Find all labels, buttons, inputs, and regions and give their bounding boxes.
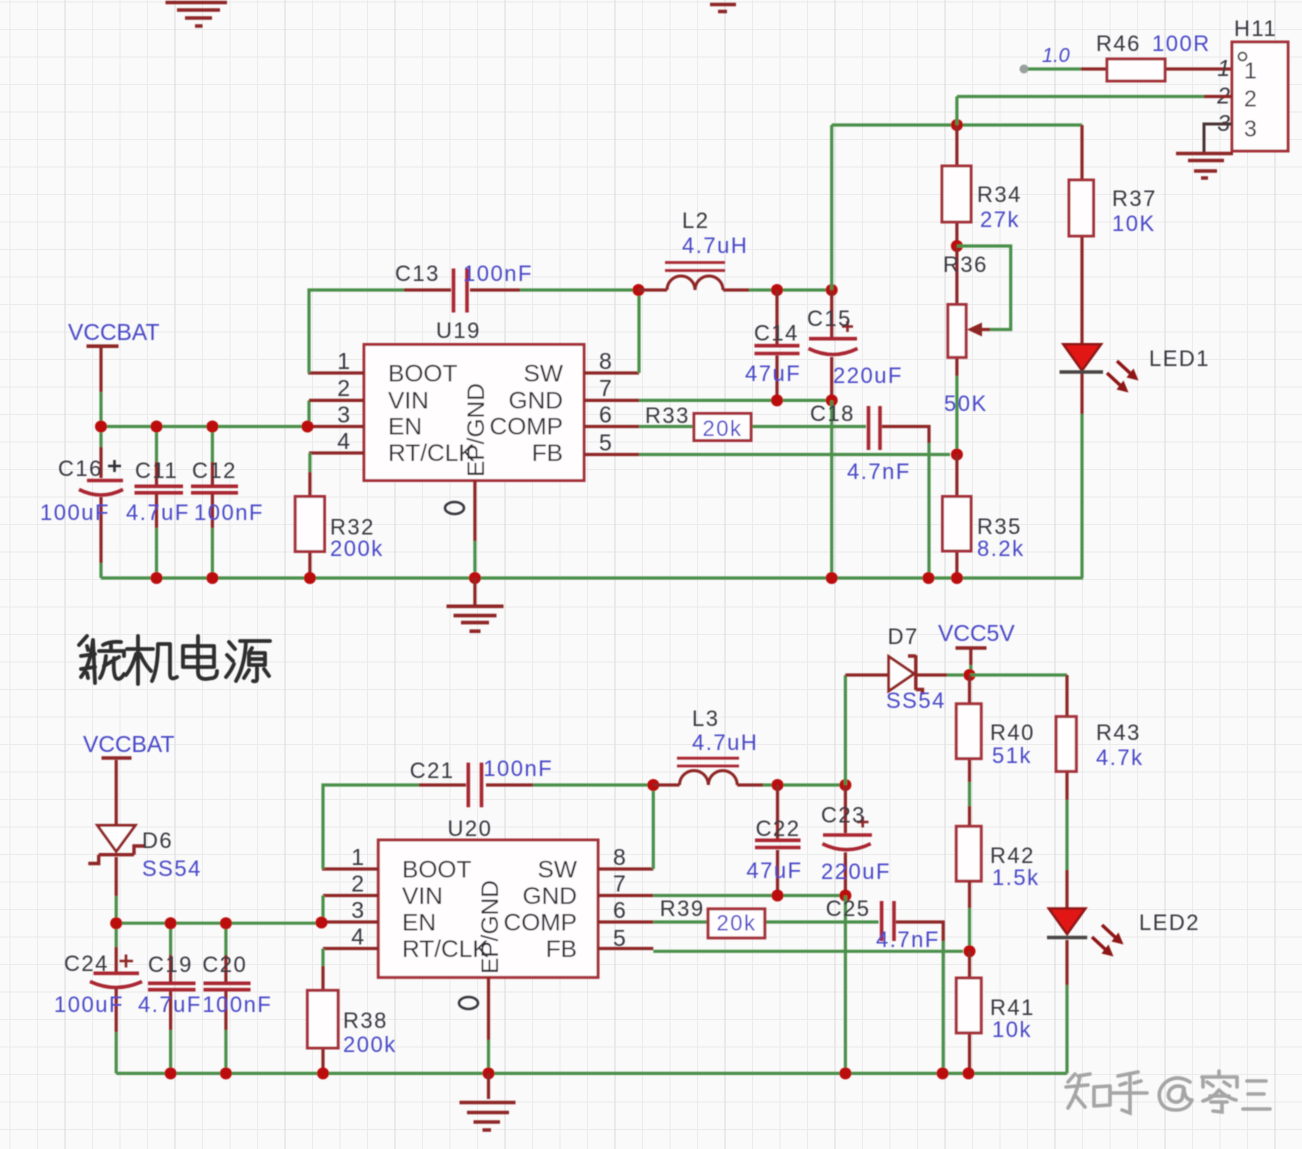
node C22 bottom junction — [772, 890, 784, 902]
resistor R41 — [956, 951, 1035, 1073]
svg-text:VIN: VIN — [402, 883, 443, 910]
pin 3 EN stub — [307, 425, 364, 428]
svg-text:7: 7 — [599, 375, 612, 401]
svg-text:GND: GND — [523, 883, 577, 910]
svg-text:4.7uF: 4.7uF — [126, 500, 190, 525]
node FB junction — [964, 945, 976, 957]
capacitor C23 polarized — [821, 785, 891, 896]
node rail junctions — [151, 572, 163, 584]
inductor L2 — [639, 208, 750, 290]
wire LED1 to ground rail — [1080, 414, 1083, 578]
wire L2 to output node — [749, 288, 832, 291]
svg-text:R34: R34 — [977, 182, 1022, 207]
U19 EP pin number 0 — [445, 502, 464, 514]
svg-text:C24: C24 — [64, 951, 109, 976]
svg-text:C22: C22 — [756, 816, 801, 841]
svg-text:C20: C20 — [202, 952, 247, 977]
svg-text:100R: 100R — [1152, 31, 1211, 56]
node EN rail junctions — [95, 421, 107, 433]
capacitor C14 — [745, 290, 801, 400]
svg-text:100nF: 100nF — [483, 756, 553, 781]
svg-text:47uF: 47uF — [745, 361, 801, 386]
pin 8 SW stub — [598, 867, 653, 870]
wire D7 to VCC5V node — [947, 673, 970, 676]
svg-text:C11: C11 — [135, 458, 178, 483]
svg-text:C13: C13 — [395, 261, 440, 286]
svg-text:5: 5 — [613, 925, 626, 951]
svg-text:10K: 10K — [1112, 211, 1156, 236]
svg-text:C19: C19 — [148, 952, 193, 977]
svg-text:U20: U20 — [448, 816, 493, 841]
svg-text:1: 1 — [1244, 58, 1257, 84]
svg-text:1.5k: 1.5k — [992, 865, 1040, 890]
svg-text:EN: EN — [402, 910, 436, 937]
capacitor C15 polarized — [807, 290, 903, 400]
svg-text:7: 7 — [613, 871, 626, 897]
resistor R33 — [645, 403, 751, 441]
wire GND row pin7 — [653, 894, 845, 897]
pin 6 COMP stub — [584, 425, 639, 428]
pin 6 COMP stub — [598, 920, 653, 923]
svg-text:1.0: 1.0 — [1042, 45, 1070, 67]
svg-text:BOOT: BOOT — [388, 361, 457, 388]
ground (below U19) — [447, 578, 504, 631]
node SW junction — [647, 779, 659, 791]
resistor R37 — [1069, 125, 1157, 344]
inductor L3 — [653, 706, 763, 785]
svg-text:100nF: 100nF — [202, 992, 272, 1017]
svg-text:SW: SW — [524, 361, 564, 388]
svg-text:COMP: COMP — [490, 414, 564, 441]
pin 1 BOOT stub — [322, 867, 378, 870]
node C23 top junction — [839, 779, 851, 791]
svg-text:C21: C21 — [410, 758, 455, 783]
title text 舵机电源 (drawn strokes) — [79, 636, 270, 684]
capacitor C25 — [826, 896, 944, 952]
capacitor C11 — [126, 427, 190, 579]
svg-text:R37: R37 — [1112, 186, 1157, 211]
pin 7 GND stub — [598, 894, 653, 897]
svg-text:SS54: SS54 — [142, 856, 202, 881]
wire VCCBAT stem — [99, 346, 102, 392]
svg-text:6: 6 — [599, 402, 612, 428]
connector H11 — [1216, 16, 1288, 151]
svg-text:1: 1 — [337, 348, 350, 374]
svg-text:4: 4 — [337, 428, 350, 454]
capacitor C21 — [410, 756, 553, 807]
net 1.0 stub — [1020, 45, 1070, 74]
capacitor C22 — [746, 785, 802, 896]
svg-text:BOOT: BOOT — [402, 857, 471, 884]
ground (below H11) — [1176, 154, 1233, 179]
svg-text:SW: SW — [538, 857, 578, 884]
LED LED2 — [1047, 909, 1200, 986]
svg-text:27k: 27k — [980, 207, 1020, 232]
svg-text:4.7nF: 4.7nF — [876, 927, 940, 952]
svg-text:LED1: LED1 — [1149, 346, 1210, 371]
LED LED1 — [1060, 344, 1211, 414]
svg-text:C25: C25 — [826, 896, 871, 921]
pin 5 FB stub — [598, 947, 653, 950]
ground (top left) — [166, 3, 228, 27]
U20 pin names — [402, 857, 578, 975]
svg-text:C14: C14 — [754, 321, 799, 346]
wire C13 to SW node — [520, 288, 639, 291]
svg-text:LED2: LED2 — [1139, 910, 1200, 935]
svg-text:L3: L3 — [692, 706, 719, 731]
svg-text:20k: 20k — [703, 416, 743, 441]
wire output rail — [832, 123, 1082, 126]
wire C21 to SW node — [533, 783, 653, 786]
pin 5 FB stub — [584, 453, 639, 456]
pin 4 RT/CLK stub — [323, 947, 378, 950]
resistor R32 — [295, 453, 384, 578]
wire VCC5V to R43 — [970, 673, 1067, 676]
resistor R39 — [660, 896, 765, 938]
node VCC5V junction — [964, 669, 976, 681]
ground (below U20) — [460, 1073, 516, 1130]
wire L3 to output node — [763, 783, 845, 786]
diode D6 SS54 — [88, 825, 202, 881]
op-amp U20 regulator box — [378, 816, 598, 977]
wire R36 to FB node — [955, 376, 958, 449]
diode D7 SS54 — [845, 624, 947, 713]
resistor R40 — [956, 675, 1035, 826]
svg-text:2: 2 — [1244, 86, 1257, 112]
svg-text:R33: R33 — [645, 403, 690, 428]
svg-text:3: 3 — [1244, 116, 1257, 142]
wire output riser to D7 — [844, 675, 847, 785]
svg-text:3: 3 — [351, 897, 364, 923]
svg-text:R46: R46 — [1096, 31, 1141, 56]
wire EP/GND pin drop — [473, 481, 476, 542]
wire COMP row — [653, 920, 878, 923]
svg-text:47uF: 47uF — [746, 858, 802, 883]
node SW junction — [633, 284, 645, 296]
svg-text:GND: GND — [509, 388, 563, 415]
wire VIN drop — [307, 400, 310, 426]
wire SW riser — [652, 785, 655, 869]
U19 pin numbers — [337, 348, 612, 456]
svg-text:100nF: 100nF — [463, 261, 533, 286]
svg-text:EN: EN — [388, 414, 422, 441]
net VCCBAT power port (servo section) — [83, 731, 175, 758]
svg-text:220uF: 220uF — [821, 859, 891, 884]
wire BOOT loop — [323, 785, 419, 869]
resistor R42 — [956, 826, 1039, 951]
wire ground rail (servo) — [116, 1072, 1067, 1075]
svg-text:C16: C16 — [58, 456, 103, 481]
svg-text:2: 2 — [351, 871, 364, 897]
svg-text:100uF: 100uF — [40, 500, 110, 525]
U20 pin numbers — [351, 844, 626, 951]
svg-text:10k: 10k — [992, 1017, 1032, 1042]
svg-text:20k: 20k — [717, 911, 757, 936]
resistor R46 — [1081, 31, 1232, 81]
ground (top middle) — [710, 5, 736, 12]
wire C18 to ground rail — [927, 443, 930, 578]
capacitor C20 — [202, 923, 272, 1073]
capacitor C16 polarized — [40, 427, 123, 579]
capacitor C24 polarized — [54, 923, 142, 1073]
svg-text:D6: D6 — [142, 828, 173, 853]
svg-text:EP/GND: EP/GND — [463, 383, 490, 477]
svg-text:VIN: VIN — [388, 388, 429, 415]
svg-text:8: 8 — [613, 844, 626, 870]
svg-text:H11: H11 — [1234, 16, 1277, 41]
resistor R38 — [307, 949, 396, 1074]
wire output riser — [830, 125, 833, 290]
node R34/R36 junction — [951, 240, 963, 252]
watermark 知乎 @零三 (drawn strokes) — [1066, 1071, 1270, 1113]
pin 3 EN stub — [322, 920, 379, 923]
capacitor C13 — [395, 261, 533, 313]
svg-text:C12: C12 — [192, 458, 237, 483]
resistor R43 — [1056, 675, 1143, 909]
svg-text:R36: R36 — [943, 252, 988, 277]
svg-text:1: 1 — [351, 844, 364, 870]
potentiometer R36 — [943, 246, 1011, 416]
pin 2 VIN stub — [309, 399, 364, 402]
node C15 bottom junction — [826, 394, 838, 406]
node FB junction — [951, 449, 963, 461]
wire output to H11 pin2 — [957, 97, 1204, 126]
svg-text:R39: R39 — [660, 896, 705, 921]
wire BOOT loop — [309, 290, 404, 373]
svg-text:R40: R40 — [990, 720, 1035, 745]
svg-text:3: 3 — [337, 402, 350, 428]
svg-text:200k: 200k — [330, 536, 384, 561]
pin 1 BOOT stub — [308, 371, 364, 374]
node C14 top junction — [771, 284, 783, 296]
resistor R34 — [942, 125, 1022, 246]
wire FB row — [653, 950, 963, 953]
wire VIN drop — [321, 896, 324, 923]
svg-text:100nF: 100nF — [194, 500, 264, 525]
node EN rail junctions — [110, 917, 122, 929]
svg-text:R38: R38 — [343, 1008, 388, 1033]
pin 4 RT/CLK stub — [309, 451, 364, 454]
svg-text:1: 1 — [1217, 55, 1230, 81]
wire LED2 to ground rail — [1065, 985, 1068, 1073]
svg-text:100uF: 100uF — [54, 992, 124, 1017]
net VCC5V power port — [938, 620, 1015, 675]
svg-text:8.2k: 8.2k — [977, 536, 1025, 561]
svg-text:FB: FB — [546, 936, 577, 963]
svg-text:R43: R43 — [1096, 720, 1141, 745]
op-amp U19 regulator box — [364, 318, 584, 481]
wire D6 to EN rail — [115, 857, 118, 896]
svg-text:EP/GND: EP/GND — [477, 880, 504, 974]
pin 8 SW stub — [584, 371, 639, 374]
svg-text:4.7uH: 4.7uH — [682, 233, 748, 258]
node output junction — [951, 119, 963, 131]
wire H11 pin2 stub — [1204, 95, 1232, 98]
capacitor C18 — [810, 401, 929, 484]
wire FB row — [639, 453, 950, 456]
svg-text:4.7k: 4.7k — [1096, 745, 1144, 770]
svg-text:VCCBAT: VCCBAT — [83, 731, 175, 757]
wire C25 to ground rail — [942, 941, 945, 1073]
capacitor C19 — [138, 923, 202, 1073]
capacitor C12 — [191, 427, 264, 579]
svg-text:4.7uF: 4.7uF — [138, 992, 202, 1017]
wire GND drop to rail — [830, 400, 833, 578]
svg-text:4.7uH: 4.7uH — [692, 730, 758, 755]
svg-text:FB: FB — [532, 440, 563, 467]
svg-text:6: 6 — [613, 897, 626, 923]
wire EN rail (servo) — [116, 922, 322, 925]
svg-text:VCC5V: VCC5V — [938, 620, 1015, 646]
wire EP/GND pin drop — [487, 977, 490, 1040]
svg-text:C15: C15 — [807, 306, 852, 331]
svg-text:200k: 200k — [343, 1032, 397, 1057]
svg-text:4.7nF: 4.7nF — [847, 459, 911, 484]
wire GND drop to rail — [844, 896, 847, 1074]
node C23 bottom junction — [839, 890, 851, 902]
svg-text:2: 2 — [337, 375, 350, 401]
node rail junctions — [165, 1067, 177, 1079]
svg-text:4: 4 — [351, 924, 364, 950]
pin 2 VIN stub — [323, 894, 378, 897]
wire COMP row — [639, 425, 866, 428]
svg-text:COMP: COMP — [504, 910, 578, 937]
svg-text:220uF: 220uF — [833, 363, 903, 388]
wire ground rail — [101, 576, 1083, 579]
svg-text:C18: C18 — [810, 401, 855, 426]
wire GND row pin7 — [639, 399, 832, 402]
U19 pin names — [388, 361, 564, 478]
wire EN rail — [101, 425, 308, 428]
svg-text:VCCBAT: VCCBAT — [68, 319, 160, 345]
wire 1.0 to R46 — [1028, 67, 1081, 70]
svg-text:C23: C23 — [821, 803, 866, 828]
resistor R35 — [943, 455, 1025, 579]
net VCCBAT power port — [68, 319, 160, 346]
U20 EP pin number 0 — [459, 997, 478, 1009]
svg-text:50K: 50K — [944, 391, 988, 416]
svg-text:L2: L2 — [682, 208, 709, 233]
pin 7 GND stub — [584, 399, 639, 402]
node C14 bottom junction — [771, 394, 783, 406]
svg-text:8: 8 — [599, 348, 612, 374]
node C22 top junction — [772, 779, 784, 791]
node C15 top junction — [826, 284, 838, 296]
wire VCCBAT stem to D6 — [115, 760, 118, 825]
svg-text:D7: D7 — [888, 624, 919, 649]
svg-text:5: 5 — [599, 430, 612, 456]
wire SW riser — [637, 290, 640, 373]
wire H11 pin3 to ground — [1204, 124, 1232, 152]
svg-text:51k: 51k — [992, 743, 1032, 768]
svg-text:SS54: SS54 — [886, 688, 946, 713]
svg-text:U19: U19 — [436, 318, 481, 343]
